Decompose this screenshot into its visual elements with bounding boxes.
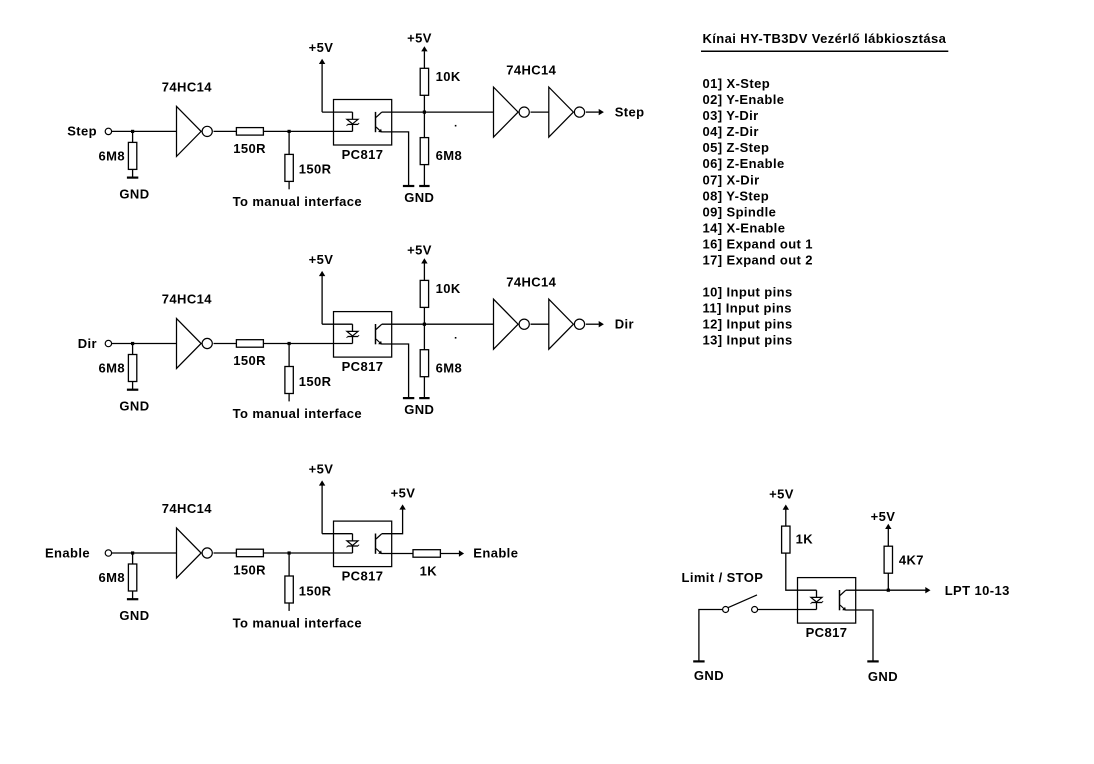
svg-text:Dir: Dir (78, 336, 97, 351)
svg-text:03] Y-Dir: 03] Y-Dir (703, 108, 759, 123)
svg-text:+5V: +5V (309, 462, 334, 477)
optocoupler PC817 limit package box (798, 578, 856, 624)
optocoupler PC817 limit LED cathode wire (816, 603, 818, 610)
wire 150R tap down (288, 603, 290, 611)
inverter U2 74HC14 output stage 1 (494, 87, 519, 137)
wire to 6M8 pulldown (132, 131, 134, 142)
svg-text:PC817: PC817 (342, 359, 384, 374)
junction manual-interface tap (288, 130, 291, 133)
optocoupler PC817 Dir LED cathode bar (348, 336, 359, 338)
svg-text:74HC14: 74HC14 (506, 275, 556, 290)
svg-text:14] X-Enable: 14] X-Enable (703, 220, 786, 235)
resistor 150R to manual interface (285, 367, 293, 394)
svg-text:150R: 150R (299, 374, 332, 389)
power +5V pullup arrow (885, 524, 891, 529)
svg-text:PC817: PC817 (806, 625, 848, 640)
power +5V LED supply arrow (319, 271, 325, 276)
ground emitter (403, 185, 414, 187)
optocoupler PC817 Enable LED anode wire (352, 534, 354, 541)
svg-text:GND: GND (119, 186, 149, 201)
svg-text:02] Y-Enable: 02] Y-Enable (703, 92, 785, 107)
optocoupler PC817 limit phototransistor collector (840, 590, 846, 595)
svg-text:10] Input pins: 10] Input pins (703, 285, 793, 300)
svg-text:+5V: +5V (407, 31, 432, 46)
inverter U1 74HC14 input stage output bubble (202, 338, 212, 348)
wire to 150R tap resistor (288, 344, 290, 367)
inverter U2 74HC14 output stage 1 (494, 299, 519, 349)
wire to 6M8 pulldown (132, 553, 134, 564)
optocoupler PC817 limit LED cathode bar (812, 602, 823, 604)
ground emitter (403, 397, 414, 399)
wire 150R tap down (288, 394, 290, 402)
svg-text:GND: GND (868, 669, 898, 684)
svg-text:+5V: +5V (871, 509, 896, 524)
svg-text:Dir: Dir (615, 317, 634, 332)
optocoupler PC817 Dir LED cathode wire (352, 337, 354, 344)
wire 6M8 to ground (132, 382, 134, 390)
wire emitter to ground (381, 344, 408, 398)
svg-text:6M8: 6M8 (436, 148, 463, 163)
wire input to inverter (112, 130, 177, 132)
ground switch (693, 660, 704, 662)
optocoupler PC817 Dir LED diode (347, 331, 358, 336)
wire collector node to 6M8 (423, 324, 425, 350)
svg-text:Step: Step (615, 104, 645, 119)
svg-text:07] X-Dir: 07] X-Dir (703, 172, 760, 187)
svg-text:+5V: +5V (769, 487, 794, 502)
svg-text:150R: 150R (299, 162, 332, 177)
wire between output inverters (531, 323, 549, 325)
svg-text:PC817: PC817 (342, 147, 384, 162)
wire +5V to 4K7 (887, 529, 889, 546)
wire 150R tap down (288, 181, 290, 189)
svg-text:74HC14: 74HC14 (506, 63, 556, 78)
switch SW1 throw terminal (752, 607, 758, 613)
resistor 6M8 input pulldown (128, 564, 136, 591)
wire collector node to 6M8 (423, 112, 425, 138)
svg-text:10K: 10K (436, 69, 461, 84)
resistor 1K output (413, 550, 440, 558)
power +5V pullup arrow (421, 258, 427, 263)
wire +5V down to LED anode (321, 64, 323, 113)
svg-text:GND: GND (694, 668, 724, 683)
svg-text:GND: GND (119, 398, 149, 413)
resistor 10K pullup (420, 68, 428, 95)
wire +5V to 10K (423, 263, 425, 280)
wire collector to logic (382, 323, 494, 325)
resistor 1K LED series (782, 526, 790, 553)
optocoupler PC817 Step LED cathode wire (352, 124, 354, 131)
svg-text:04] Z-Dir: 04] Z-Dir (703, 124, 759, 139)
resistor 6M8 output pulldown (420, 138, 428, 165)
wire inverter to 150R (214, 552, 237, 554)
inverter U1 74HC14 input stage output bubble (202, 126, 212, 136)
switch SW1 blade (728, 595, 757, 608)
wire 10K to collector node (423, 307, 425, 324)
junction collector node (423, 323, 426, 326)
inverter U2 74HC14 output stage 1 output bubble (519, 319, 529, 329)
optocoupler PC817 Enable phototransistor base bar (375, 534, 377, 554)
svg-text:06] Z-Enable: 06] Z-Enable (703, 156, 785, 171)
power +5V LED supply arrow (319, 59, 325, 64)
junction manual-interface tap (288, 551, 291, 554)
resistor 150R to manual interface (285, 154, 293, 181)
optocoupler PC817 Step phototransistor base bar (375, 112, 377, 132)
svg-text:6M8: 6M8 (436, 360, 463, 375)
ground (127, 177, 138, 179)
inverter U1 74HC14 input stage (177, 319, 202, 369)
svg-text:150R: 150R (233, 353, 266, 368)
ground output 6M8 (419, 397, 429, 399)
ground (127, 389, 138, 391)
wire 1K down to LED anode (786, 553, 817, 590)
svg-text:17] Expand out 2: 17] Expand out 2 (703, 252, 813, 267)
title underline (701, 50, 948, 52)
svg-text:Step: Step (67, 124, 97, 139)
stray dot artifact (455, 125, 457, 127)
junction input node (131, 551, 134, 554)
inverter U3 74HC14 output stage 2 (549, 299, 574, 349)
svg-text:1K: 1K (796, 532, 814, 547)
wire switch to ground leg (699, 610, 723, 662)
optocoupler PC817 Dir phototransistor collector (376, 324, 382, 329)
power +5V LED supply arrow (319, 480, 325, 485)
optocoupler PC817 Dir phototransistor emitter (376, 339, 381, 344)
optocoupler PC817 Enable LED cathode wire (352, 546, 354, 553)
optocoupler PC817 Enable phototransistor collector (376, 534, 382, 539)
wire +5V down to collector (382, 509, 403, 534)
wire +5V to 1K (785, 510, 787, 527)
svg-text:13] Input pins: 13] Input pins (703, 333, 793, 348)
inverter U3 74HC14 output stage 2 (549, 87, 574, 137)
wire inverter to 150R (214, 130, 237, 132)
optocoupler PC817 Enable package box (334, 521, 392, 567)
optocoupler PC817 Enable LED diode (347, 541, 358, 546)
power +5V collector arrow (399, 504, 405, 509)
inverter U3 74HC14 output stage 2 output bubble (574, 319, 584, 329)
terminal Enable input (105, 550, 111, 556)
resistor 6M8 output pulldown (420, 350, 428, 377)
optocoupler PC817 Step LED anode wire (352, 112, 354, 119)
ground output 6M8 (419, 185, 429, 187)
svg-text:GND: GND (404, 190, 434, 205)
junction manual-interface tap (288, 342, 291, 345)
terminal Dir input (105, 340, 111, 346)
wire 6M8 to ground (423, 165, 425, 186)
svg-text:1K: 1K (420, 564, 438, 579)
svg-text:+5V: +5V (391, 486, 416, 501)
svg-text:05] Z-Step: 05] Z-Step (703, 140, 770, 155)
svg-text:150R: 150R (233, 563, 266, 578)
wire collector to LPT (846, 589, 926, 591)
svg-text:To manual interface: To manual interface (233, 406, 362, 421)
svg-text:6M8: 6M8 (99, 570, 126, 585)
svg-text:PC817: PC817 (342, 569, 384, 584)
svg-text:74HC14: 74HC14 (162, 501, 212, 516)
junction input node (131, 342, 134, 345)
svg-text:09] Spindle: 09] Spindle (703, 204, 777, 219)
optocoupler PC817 Step LED diode (347, 119, 358, 124)
ground (127, 598, 138, 600)
svg-text:74HC14: 74HC14 (162, 80, 212, 95)
svg-text:Enable: Enable (473, 546, 518, 561)
wire emitter to ground (381, 132, 408, 186)
wire between output inverters (531, 111, 549, 113)
wire +5V to 10K (423, 51, 425, 68)
stray dot artifact (455, 337, 457, 339)
wire to 150R tap resistor (288, 131, 290, 154)
optocoupler PC817 limit LED anode wire (816, 590, 818, 597)
resistor 6M8 input pulldown (128, 355, 136, 382)
resistor 150R to manual interface (285, 576, 293, 603)
svg-text:6M8: 6M8 (99, 149, 126, 164)
switch SW1 pole terminal (723, 607, 729, 613)
ground emitter (867, 660, 878, 662)
wire +5V down to LED anode (321, 276, 323, 325)
wire switch to optocoupler LED (758, 609, 817, 611)
resistor 150R series (236, 549, 263, 557)
svg-text:6M8: 6M8 (99, 361, 126, 376)
optocoupler PC817 limit LED diode (811, 597, 822, 602)
terminal Step input (105, 128, 111, 134)
resistor 4K7 pullup (884, 546, 892, 573)
optocoupler PC817 limit phototransistor base bar (839, 590, 841, 610)
wire 4K7 to collector node (887, 573, 889, 590)
svg-text:150R: 150R (233, 141, 266, 156)
wire to output arrow (586, 111, 599, 113)
svg-text:GND: GND (404, 402, 434, 417)
wire 150R to optocoupler LED (263, 130, 352, 132)
wire input to inverter (112, 343, 177, 345)
optocoupler PC817 Dir LED anode wire (352, 324, 354, 331)
resistor 6M8 input pulldown (128, 142, 136, 169)
optocoupler PC817 Step phototransistor emitter (376, 127, 381, 132)
optocoupler PC817 Step phototransistor collector (376, 112, 382, 117)
svg-text:74HC14: 74HC14 (162, 292, 212, 307)
wire to output arrow (586, 323, 599, 325)
power +5V LED supply arrow (783, 505, 789, 510)
optocoupler PC817 Step LED cathode bar (348, 123, 359, 125)
inverter U1 74HC14 input stage (177, 528, 202, 578)
optocoupler PC817 Enable LED cathode bar (348, 545, 359, 547)
junction collector node (887, 589, 890, 592)
optocoupler PC817 limit phototransistor emitter (840, 605, 845, 610)
wire emitter to ground (845, 610, 873, 661)
optocoupler PC817 Step package box (334, 100, 392, 146)
wire 150R to optocoupler LED (263, 552, 352, 554)
svg-text:16] Expand out 1: 16] Expand out 1 (703, 236, 813, 251)
wire to 6M8 pulldown (132, 344, 134, 355)
power +5V pullup arrow (421, 46, 427, 51)
svg-text:To manual interface: To manual interface (233, 194, 362, 209)
wire 150R to optocoupler LED (263, 343, 352, 345)
optocoupler PC817 Dir phototransistor base bar (375, 324, 377, 344)
wire to 150R tap resistor (288, 553, 290, 576)
svg-text:Enable: Enable (45, 545, 90, 560)
inverter U1 74HC14 input stage (177, 106, 202, 156)
resistor 150R series (236, 340, 263, 348)
wire collector to logic (382, 111, 494, 113)
wire 6M8 to ground (132, 169, 134, 177)
svg-text:08] Y-Step: 08] Y-Step (703, 188, 770, 203)
svg-text:150R: 150R (299, 583, 332, 598)
svg-text:12] Input pins: 12] Input pins (703, 317, 793, 332)
svg-text:+5V: +5V (309, 40, 334, 55)
optocoupler PC817 Enable phototransistor emitter (376, 549, 381, 554)
svg-text:Kínai HY-TB3DV Vezérlő lábkios: Kínai HY-TB3DV Vezérlő lábkiosztása (703, 31, 947, 46)
wire inverter to 150R (214, 343, 237, 345)
inverter U1 74HC14 input stage output bubble (202, 548, 212, 558)
svg-text:10K: 10K (436, 281, 461, 296)
svg-text:To manual interface: To manual interface (233, 616, 362, 631)
junction input node (131, 130, 134, 133)
wire 6M8 to ground (132, 591, 134, 599)
svg-text:GND: GND (119, 608, 149, 623)
resistor 150R series (236, 128, 263, 136)
wire input to inverter (112, 552, 177, 554)
svg-text:01] X-Step: 01] X-Step (703, 76, 771, 91)
svg-text:4K7: 4K7 (899, 552, 924, 567)
inverter U3 74HC14 output stage 2 output bubble (574, 107, 584, 117)
resistor 10K pullup (420, 280, 428, 307)
svg-text:+5V: +5V (309, 252, 334, 267)
svg-text:Limit / STOP: Limit / STOP (682, 570, 764, 585)
wire 1K to output arrow (440, 553, 459, 555)
junction collector node (423, 111, 426, 114)
inverter U2 74HC14 output stage 1 output bubble (519, 107, 529, 117)
wire emitter to 1K (381, 553, 413, 555)
wire 10K to collector node (423, 95, 425, 112)
svg-text:11] Input pins: 11] Input pins (703, 301, 792, 316)
wire 6M8 to ground (423, 377, 425, 398)
svg-text:+5V: +5V (407, 243, 432, 258)
wire +5V down to LED anode (321, 485, 323, 534)
optocoupler PC817 Dir package box (334, 312, 392, 358)
svg-text:LPT 10-13: LPT 10-13 (945, 583, 1010, 598)
